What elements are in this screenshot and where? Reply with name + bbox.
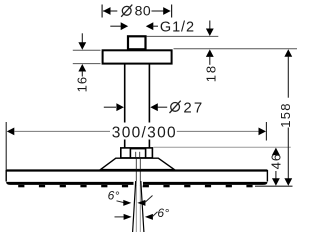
svg-text:18: 18 <box>204 64 219 82</box>
svg-text:G1/2: G1/2 <box>160 20 195 36</box>
svg-text:158: 158 <box>278 102 293 128</box>
svg-text:27: 27 <box>183 99 204 116</box>
svg-text:46: 46 <box>269 153 284 169</box>
svg-text:6°: 6° <box>108 189 120 203</box>
svg-text:16: 16 <box>75 76 90 92</box>
svg-text:80: 80 <box>135 3 152 19</box>
svg-text:6°: 6° <box>157 206 169 220</box>
svg-text:300/300: 300/300 <box>112 124 177 141</box>
